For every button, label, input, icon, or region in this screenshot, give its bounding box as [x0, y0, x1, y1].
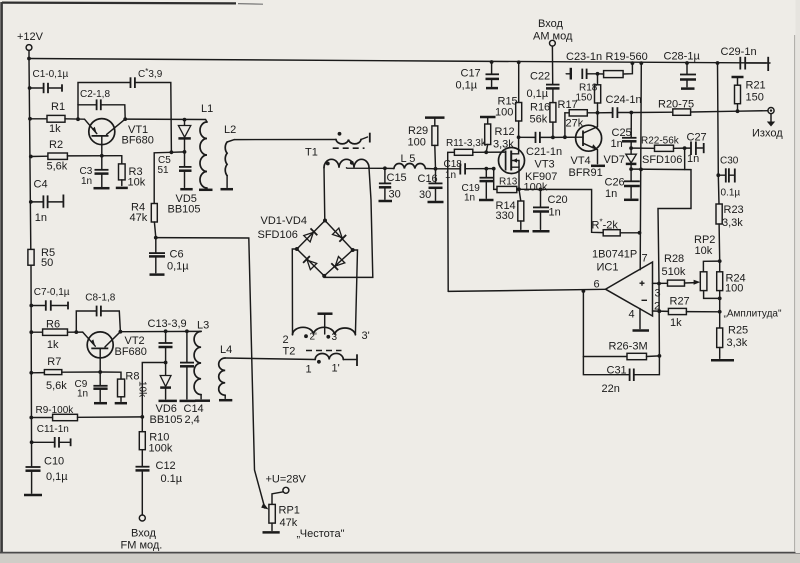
- svg-text:C1-0,1µ: C1-0,1µ: [33, 69, 69, 80]
- resistor R14: [496, 189, 530, 231]
- wire left supply column: [29, 59, 32, 467]
- capacitor C14: [180, 329, 204, 426]
- potentiometer RP2: [694, 234, 720, 298]
- svg-text:1n: 1n: [687, 153, 699, 165]
- transformer T2 secondary: [283, 249, 370, 346]
- svg-text:50: 50: [41, 257, 53, 269]
- transformer T1 core: [333, 147, 365, 149]
- transistor VT1: [85, 117, 154, 156]
- svg-text:30: 30: [389, 189, 401, 201]
- svg-text:10k: 10k: [128, 177, 146, 189]
- svg-text:C11-1n: C11-1n: [37, 424, 69, 435]
- svg-text:SFD106: SFD106: [258, 229, 298, 241]
- svg-text:SFD106: SFD106: [642, 154, 682, 166]
- svg-text:АМ мод: АМ мод: [533, 31, 573, 43]
- svg-text:0.1µ: 0.1µ: [161, 473, 183, 485]
- svg-text:10k: 10k: [695, 245, 713, 257]
- svg-text:R21: R21: [746, 80, 766, 92]
- resistor R5: [28, 247, 55, 269]
- svg-text:330: 330: [496, 210, 514, 222]
- svg-text:„Амплитуда": „Амплитуда": [724, 309, 782, 320]
- svg-text:C7-0,1µ: C7-0,1µ: [34, 287, 70, 298]
- capacitor C21: [517, 132, 562, 158]
- resistor R12: [480, 117, 515, 152]
- svg-text:510k: 510k: [662, 266, 686, 278]
- svg-text:3,3k: 3,3k: [722, 217, 743, 229]
- wire VD5 link: [170, 150, 185, 154]
- svg-text:C18: C18: [444, 159, 463, 170]
- wire feedback column: [658, 284, 660, 356]
- wire T1 secondary tap to L5: [347, 167, 385, 170]
- svg-text:30: 30: [419, 189, 431, 201]
- svg-text:0,1µ: 0,1µ: [167, 261, 189, 273]
- resistor R star 2k: [592, 218, 642, 236]
- svg-text:C8-1,8: C8-1,8: [85, 293, 115, 304]
- svg-text:3,3k: 3,3k: [727, 337, 748, 349]
- capacitor C13: [148, 318, 187, 364]
- svg-text:Вход: Вход: [131, 528, 156, 540]
- wire VT1 collector to tank: [125, 119, 207, 122]
- svg-text:C4: C4: [34, 179, 48, 191]
- svg-text:2': 2': [310, 332, 318, 343]
- capacitor C30: [716, 156, 740, 199]
- op-amp IC1: [592, 249, 661, 321]
- svg-text:7: 7: [642, 253, 648, 265]
- svg-text:C31: C31: [607, 365, 627, 377]
- capacitor C18: [444, 159, 496, 181]
- svg-text:1n: 1n: [445, 170, 456, 181]
- svg-text:4: 4: [629, 309, 635, 321]
- svg-text:C10: C10: [44, 456, 64, 468]
- svg-text:3: 3: [332, 332, 338, 343]
- wire main line to C18: [436, 168, 460, 170]
- svg-text:100: 100: [408, 137, 426, 149]
- svg-text:VD7: VD7: [604, 154, 625, 166]
- border frame left: [0, 2, 3, 553]
- svg-text:3,3k: 3,3k: [493, 139, 514, 151]
- diode VD7: [604, 148, 683, 171]
- resistor R2: [29, 139, 122, 173]
- wire VT2 collector line: [120, 330, 201, 332]
- svg-text:0,1µ: 0,1µ: [527, 88, 549, 100]
- transformer T1 secondary: [324, 159, 369, 168]
- svg-text:BF680: BF680: [115, 346, 147, 358]
- varactor VD5: [168, 118, 201, 216]
- transformer T1 primary: [305, 132, 370, 159]
- svg-text:VD1-VD4: VD1-VD4: [261, 215, 307, 227]
- svg-text:RP1: RP1: [279, 505, 300, 517]
- capacitor C23: [566, 51, 602, 80]
- svg-text:BB105: BB105: [168, 204, 201, 216]
- svg-text:1n: 1n: [81, 176, 92, 187]
- capacitor C4: [29, 179, 64, 225]
- svg-text:100k: 100k: [524, 182, 548, 194]
- resistor R3: [116, 156, 146, 189]
- svg-text:R12: R12: [495, 126, 515, 138]
- svg-text:100: 100: [725, 283, 743, 295]
- svg-text:C17: C17: [461, 68, 481, 80]
- svg-text:R25: R25: [728, 325, 748, 337]
- node +12V terminal: [17, 31, 44, 60]
- svg-text:2: 2: [283, 334, 289, 346]
- svg-text:R27: R27: [670, 296, 690, 308]
- svg-text:150: 150: [576, 93, 593, 104]
- svg-text:56k: 56k: [530, 114, 548, 126]
- capacitor C8: [74, 293, 120, 335]
- svg-text:R11-3,3k: R11-3,3k: [446, 138, 487, 149]
- capacitor C10: [24, 456, 68, 496]
- resistor R13: [494, 169, 521, 193]
- svg-text:1n: 1n: [605, 188, 617, 200]
- inductor L2: [221, 124, 237, 189]
- svg-text:BB105: BB105: [150, 414, 183, 426]
- capacitor C6: [149, 236, 189, 275]
- svg-text:R23: R23: [724, 204, 744, 216]
- capacitor C1: [28, 69, 69, 93]
- svg-text:100: 100: [495, 107, 513, 119]
- resistor R24: [717, 261, 746, 314]
- capacitor C31: [583, 356, 659, 395]
- resistor R15: [495, 60, 522, 137]
- svg-text:C30: C30: [720, 156, 739, 167]
- border frame top: [2, 3, 263, 5]
- svg-text:1': 1': [332, 363, 340, 375]
- capacitor C5: [158, 152, 193, 189]
- svg-text:C24-1n: C24-1n: [606, 94, 642, 106]
- svg-text:R29: R29: [408, 125, 428, 137]
- svg-text:1n: 1n: [35, 212, 47, 224]
- node Amplituda label: [724, 309, 782, 320]
- inductor L5: [385, 153, 436, 169]
- wire VD7 node across: [631, 168, 691, 171]
- capacitor C16: [418, 167, 444, 202]
- svg-text:VT4: VT4: [571, 155, 591, 167]
- capacitor C3: [80, 154, 110, 188]
- capacitor C24: [598, 94, 642, 118]
- potentiometer RP1: [263, 474, 345, 541]
- svg-text:R16: R16: [530, 102, 550, 114]
- resistor R17: [558, 99, 598, 137]
- wire T1 secondary left to bridge top: [323, 168, 326, 221]
- svg-text:C21-1n: C21-1n: [526, 146, 562, 158]
- wire L2 to T1 primary: [234, 139, 336, 141]
- node FM input terminal: [121, 515, 163, 552]
- svg-text:+U=28V: +U=28V: [266, 474, 307, 486]
- svg-text:C27: C27: [687, 132, 707, 144]
- svg-text:T1: T1: [305, 147, 318, 159]
- capacitor C28: [664, 51, 701, 89]
- capacitor C2: [76, 89, 125, 121]
- svg-text:C15: C15: [387, 172, 407, 184]
- svg-text:„Честота": „Честота": [297, 528, 345, 540]
- svg-text:R17: R17: [558, 99, 578, 111]
- inductor L4: [219, 344, 233, 400]
- resistor R21: [732, 77, 766, 113]
- svg-text:150: 150: [746, 92, 764, 104]
- capacitor C7: [29, 287, 69, 311]
- svg-text:0,1µ: 0,1µ: [456, 80, 478, 92]
- svg-text:BF680: BF680: [122, 135, 154, 147]
- svg-text:ИС1: ИС1: [597, 262, 619, 274]
- resistor R7: [29, 356, 100, 392]
- capacitor C19: [462, 169, 494, 204]
- svg-text:R22-56k: R22-56k: [641, 136, 680, 147]
- resistor R4: [130, 152, 172, 237]
- svg-text:1В0741Р: 1В0741Р: [592, 249, 637, 261]
- capacitor C22: [527, 71, 560, 103]
- resistor R1: [28, 101, 84, 135]
- svg-text:Изход: Изход: [752, 128, 783, 140]
- svg-text:100k: 100k: [149, 443, 173, 455]
- svg-text:1k: 1k: [47, 339, 59, 351]
- resistor R27: [653, 296, 720, 330]
- svg-text:C*3,9: C*3,9: [138, 67, 163, 80]
- svg-text:5,6k: 5,6k: [46, 380, 67, 392]
- transistor VT2: [83, 330, 147, 372]
- wire rail to op-amp V+: [639, 61, 643, 270]
- svg-text:R7: R7: [47, 356, 61, 368]
- svg-text:1n: 1n: [77, 389, 88, 400]
- border frame bottom: [0, 553, 800, 563]
- resistor R23: [716, 61, 744, 263]
- inductor L3: [194, 320, 210, 401]
- capacitor C11: [30, 424, 71, 448]
- resistor R28: [653, 253, 701, 286]
- svg-text:0.1µ: 0.1µ: [721, 188, 741, 199]
- svg-text:1n: 1n: [549, 207, 561, 219]
- transformer T2 core: [306, 350, 342, 352]
- svg-text:5,6k: 5,6k: [47, 161, 68, 173]
- capacitor C17: [456, 60, 500, 91]
- svg-text:L3: L3: [197, 320, 209, 332]
- svg-text:C23-1n: C23-1n: [566, 51, 602, 63]
- svg-text:C6: C6: [170, 249, 184, 261]
- resistor R29: [408, 118, 445, 169]
- node AM input terminal: [533, 18, 573, 84]
- svg-text:1k: 1k: [670, 317, 682, 329]
- svg-text:R28: R28: [664, 253, 684, 265]
- svg-text:C20: C20: [548, 194, 568, 206]
- svg-text:2,4: 2,4: [185, 414, 200, 426]
- capacitor C25: [611, 113, 637, 151]
- svg-text:R26-3M: R26-3M: [609, 341, 648, 353]
- resistor R22: [631, 136, 686, 152]
- svg-text:FM мод.: FM мод.: [121, 540, 163, 552]
- diode bridge VD1-VD4: [258, 215, 355, 278]
- svg-text:R13: R13: [499, 177, 518, 188]
- capacitor C*-3,9: [78, 67, 171, 152]
- svg-text:3': 3': [362, 330, 370, 342]
- svg-text:C26: C26: [605, 177, 625, 189]
- capacitor C12: [136, 460, 183, 515]
- wire C6 to FM varactor feed: [156, 238, 269, 510]
- capacitor C20: [519, 188, 568, 232]
- svg-text:C22: C22: [530, 71, 550, 83]
- transformer T2 primary: [283, 346, 358, 376]
- svg-text:C2-1,8: C2-1,8: [80, 89, 110, 100]
- ground VT4 emitter: [591, 165, 605, 168]
- svg-text:R1: R1: [51, 101, 65, 113]
- svg-text:1k: 1k: [49, 123, 61, 135]
- border frame right: [795, 0, 800, 553]
- resistor R20: [631, 99, 737, 116]
- svg-text:R19-560: R19-560: [606, 51, 648, 63]
- capacitor C27: [685, 132, 707, 166]
- resistor R26: [583, 291, 661, 360]
- svg-text:0,1µ: 0,1µ: [46, 471, 68, 483]
- capacitor C15: [379, 166, 407, 201]
- ground op-amp pin 4: [633, 309, 650, 331]
- svg-text:R*-2k: R*-2k: [592, 218, 619, 232]
- svg-text:T2: T2: [283, 346, 296, 358]
- resistor R8: [100, 371, 147, 404]
- resistor R6: [29, 319, 82, 352]
- wire op-amp output pin 6: [448, 289, 605, 293]
- wire opamp output to R11: [447, 152, 450, 291]
- resistor R16: [530, 102, 556, 138]
- svg-text:C28-1µ: C28-1µ: [664, 51, 701, 63]
- svg-text:22n: 22n: [602, 383, 620, 395]
- svg-text:R20-75: R20-75: [658, 99, 694, 111]
- wire VT4 base line: [553, 135, 583, 139]
- svg-text:C16: C16: [418, 173, 438, 185]
- svg-text:47k: 47k: [280, 517, 298, 529]
- transistor VT3: [499, 137, 558, 193]
- svg-text:+12V: +12V: [17, 31, 44, 43]
- svg-text:VT3: VT3: [535, 159, 555, 171]
- wire node B to R star: [541, 189, 604, 232]
- svg-text:L2: L2: [224, 124, 236, 136]
- svg-text:BFR91: BFR91: [569, 167, 603, 179]
- svg-text:L4: L4: [220, 344, 232, 356]
- ground T2 center tap: [318, 314, 333, 334]
- svg-text:L 5: L 5: [401, 153, 416, 165]
- svg-text:C12: C12: [156, 460, 176, 472]
- svg-text:L1: L1: [201, 103, 213, 115]
- resistor R11: [446, 138, 506, 155]
- svg-text:C13-3,9: C13-3,9: [148, 318, 187, 330]
- inductor L1: [199, 103, 213, 190]
- svg-text:51: 51: [158, 165, 170, 176]
- resistor R25: [711, 312, 748, 360]
- svg-text:1n: 1n: [611, 138, 623, 150]
- resistor R10: [139, 363, 173, 467]
- svg-text:1: 1: [306, 364, 312, 376]
- svg-text:R9-100k: R9-100k: [36, 405, 75, 416]
- resistor R9: [29, 405, 142, 421]
- svg-text:R6: R6: [46, 319, 60, 331]
- capacitor C29: [721, 46, 769, 71]
- resistor R19: [598, 51, 648, 78]
- wire T1 secondary right to bridge bottom: [324, 168, 373, 278]
- wire C27 feedback to op-amp input: [658, 148, 691, 283]
- varactor VD6: [150, 363, 183, 427]
- svg-text:C29-1n: C29-1n: [721, 46, 757, 58]
- svg-text:Вход: Вход: [538, 18, 563, 30]
- wire L4 to T2 primary: [225, 358, 315, 360]
- node output terminal: [738, 108, 784, 140]
- capacitor C26: [605, 169, 640, 200]
- svg-text:1n: 1n: [464, 193, 475, 204]
- svg-text:R2: R2: [49, 139, 63, 151]
- capacitor C9: [75, 370, 108, 403]
- resistor R18: [576, 74, 601, 115]
- wire +12V top rail: [29, 59, 770, 64]
- svg-text:47k: 47k: [130, 212, 148, 224]
- transistor VT4: [569, 113, 603, 179]
